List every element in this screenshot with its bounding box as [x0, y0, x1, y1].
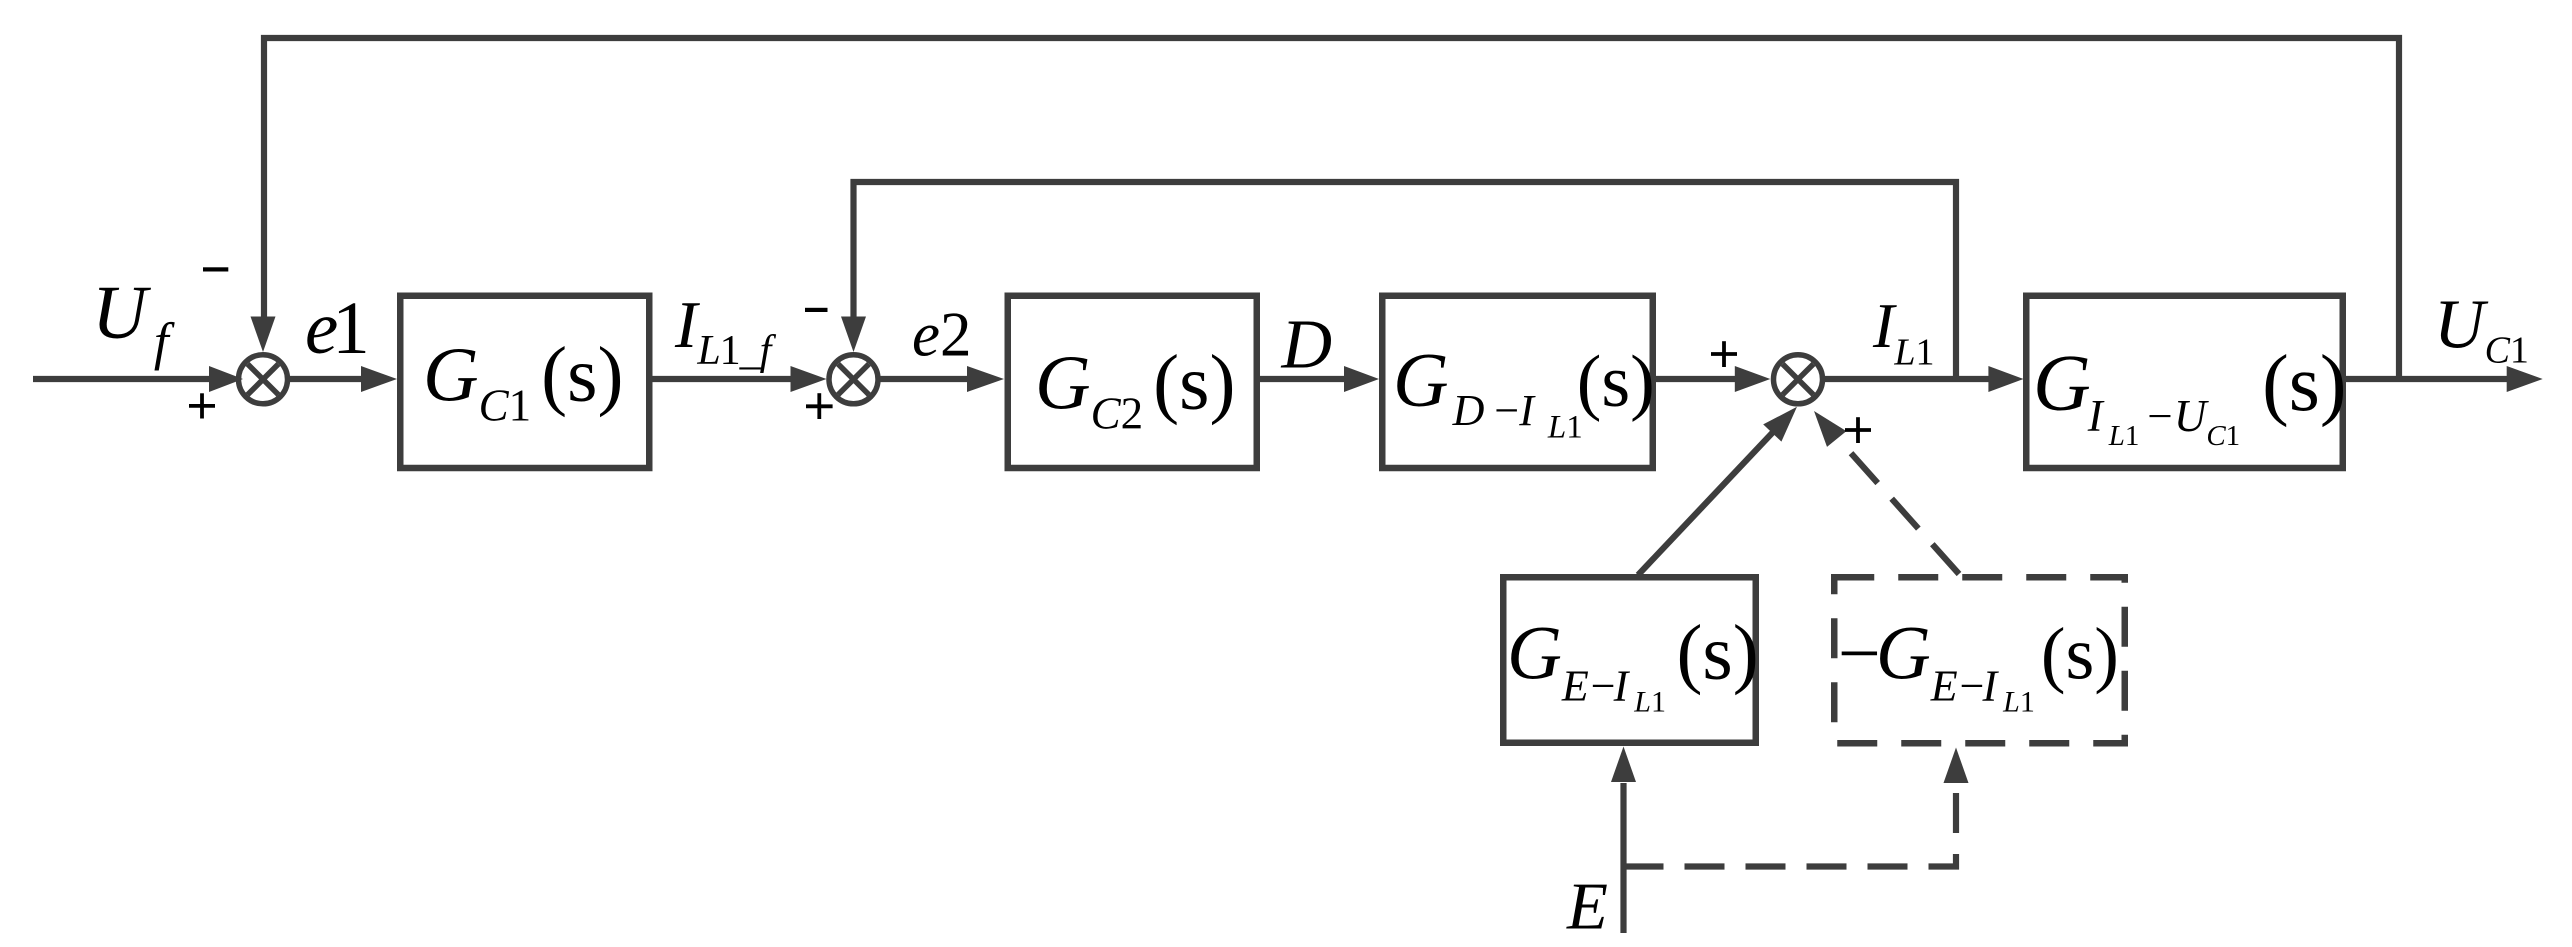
wire feedback2 inner loop [854, 182, 1957, 379]
arrowhead input into junction1 [209, 366, 243, 392]
arrowhead into junction3 [1735, 366, 1771, 392]
block G_C1 [400, 296, 649, 468]
wire dashed diagonal to junction3 [1841, 442, 1959, 574]
label minus at junction2 [805, 308, 828, 312]
wire I_L1_f: G_C1 to junction2 [652, 376, 792, 382]
label plus before junction3 [1711, 341, 1737, 367]
label minus at junction1 [203, 267, 228, 271]
arrowhead diagonal solid into junction3 [1763, 407, 1797, 442]
wire dashed branch from E line [1624, 783, 1957, 867]
wire output U_C1 [2346, 376, 2508, 382]
summing junction 1 [239, 355, 288, 404]
svg-text:e2: e2 [912, 300, 971, 370]
wire D: G_C2 to G_D-IL1 [1259, 376, 1345, 382]
summing junction 2 [829, 355, 878, 404]
block G_E-IL1 [1503, 577, 1759, 743]
wire feedback1 top loop [264, 38, 2399, 379]
arrowhead output [2507, 366, 2543, 392]
block -G_E-IL1 dashed [1834, 577, 2125, 743]
arrowhead into G_C2 [967, 366, 1004, 392]
svg-text:D: D [1281, 307, 1333, 384]
wire e2: junction2 to G_C2 [880, 376, 969, 382]
block G_IL1-UC1 [2026, 296, 2346, 468]
wire input U_f [33, 376, 210, 382]
block G_C2 [1008, 296, 1257, 468]
arrowhead feedback2 down into junction2 [841, 317, 866, 353]
label plus at junction1 [189, 393, 215, 418]
wire G_D-IL1 to junction3 [1655, 376, 1736, 382]
arrowhead feedback1 down into junction1 [251, 317, 276, 353]
svg-text:E: E [1566, 869, 1608, 943]
arrowhead into G_D-IL1 [1344, 366, 1379, 392]
label plus at junction2 [806, 393, 833, 419]
summing junction 3 [1774, 355, 1823, 404]
arrowhead into G_IL1-UC1 [1988, 366, 2023, 392]
wire I_L1: junction3 to G_IL1-UC1 [1825, 376, 1990, 382]
arrowhead into junction2 [791, 366, 827, 392]
wire e1: junction1 to G_C1 [290, 376, 363, 382]
arrowhead dashed diagonal into junction3 [1814, 411, 1846, 447]
wire E input vertical [1620, 783, 1626, 933]
arrowhead E into G_E-IL1 [1611, 747, 1636, 783]
wire diagonal from G_E-IL1 to junction3 [1638, 430, 1775, 575]
block G_D-IL1 [1382, 296, 1655, 468]
arrowhead dashed branch into dashed block [1944, 748, 1969, 784]
svg-text:e1: e1 [305, 287, 370, 370]
label plus right of junction3 [1845, 417, 1871, 443]
arrowhead into G_C1 [361, 366, 397, 392]
